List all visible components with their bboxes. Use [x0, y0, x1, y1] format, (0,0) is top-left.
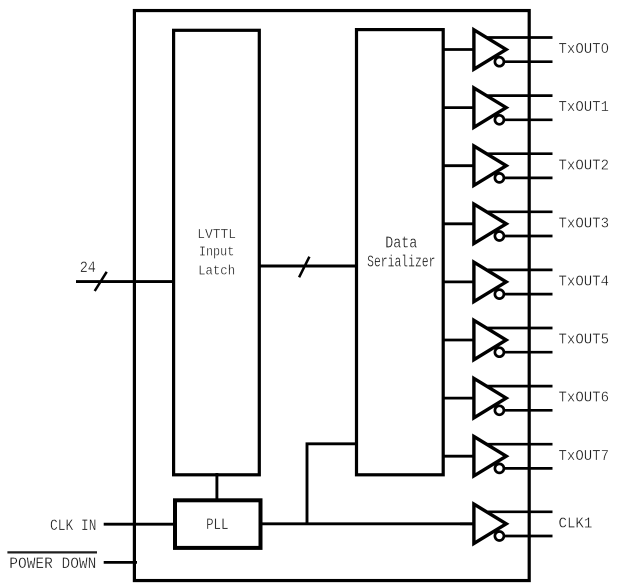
buffer TxOUT5 driver (LVDS output driver triangle)	[474, 320, 506, 359]
wire TxOUT7 driver true output	[480, 443, 553, 446]
wire TxOUT2 driver true output	[480, 152, 553, 155]
wire TxOUT4 driver complement output	[499, 293, 552, 296]
wire TxOUT2 driver buffer input	[443, 164, 476, 167]
buffer TxOUT2 driver (LVDS output driver triangle)	[474, 146, 506, 185]
wire TxOUT6 driver true output	[480, 385, 553, 388]
svg-text:PLL: PLL	[206, 516, 228, 534]
wire TxOUT6 driver buffer input	[443, 397, 476, 400]
svg-text:CLK IN: CLK IN	[50, 517, 97, 535]
wire TxOUT3 driver complement output	[499, 235, 552, 238]
wire latch to serializer (parallel data)	[258, 265, 358, 268]
svg-text:TxOUT2: TxOUT2	[559, 156, 610, 174]
svg-text:TxOUT7: TxOUT7	[559, 447, 610, 465]
block: PLL	[175, 500, 261, 548]
inversion bubble on TxOUT3 driver complement output	[495, 232, 504, 241]
wire TxOUT7 driver buffer input	[443, 455, 476, 458]
wire PLL output to CLK1 buffer	[261, 522, 477, 525]
wire POWER DOWN to chip	[104, 561, 137, 564]
wire TxOUT0 driver buffer input	[443, 48, 476, 51]
svg-text:TxOUT4: TxOUT4	[559, 273, 610, 291]
buffer TxOUT3 driver (LVDS output driver triangle)	[474, 204, 506, 243]
inversion bubble on TxOUT4 driver complement output	[495, 290, 504, 299]
wire CLK1 driver buffer input	[460, 522, 476, 525]
wire PLL clock branch up to serializer	[307, 444, 358, 524]
svg-text:CLK1: CLK1	[559, 514, 593, 532]
wire 24-bit input bus	[76, 280, 174, 283]
inversion bubble on TxOUT2 driver complement output	[495, 173, 504, 182]
svg-text:POWER DOWN: POWER DOWN	[9, 555, 96, 573]
wire CLK IN to PLL	[104, 523, 177, 526]
chip outline box	[134, 11, 529, 581]
svg-text:Data: Data	[385, 234, 417, 253]
inversion bubble on TxOUT5 driver complement output	[495, 348, 504, 357]
wire TxOUT0 driver complement output	[499, 60, 552, 63]
buffer CLK1 driver (LVDS output driver triangle)	[474, 504, 506, 543]
wire TxOUT3 driver true output	[480, 210, 553, 213]
wire TxOUT5 driver buffer input	[443, 339, 476, 342]
wire TxOUT2 driver complement output	[499, 177, 552, 180]
wire TxOUT1 driver true output	[480, 94, 553, 97]
block: Data Serializer	[357, 30, 444, 475]
wire TxOUT4 driver true output	[480, 269, 553, 272]
svg-text:TxOUT1: TxOUT1	[559, 98, 610, 116]
wire latch clock from PLL (vertical)	[215, 473, 218, 502]
bus-width slash on input bus	[95, 272, 107, 291]
wire TxOUT6 driver complement output	[499, 409, 552, 412]
wire CLK1 driver true output	[480, 510, 553, 513]
svg-text:Input: Input	[199, 245, 234, 261]
wire TxOUT3 driver buffer input	[443, 222, 476, 225]
block: LVTTL Input Latch	[174, 30, 260, 475]
svg-text:Latch: Latch	[198, 264, 235, 280]
inversion bubble on TxOUT7 driver complement output	[495, 464, 504, 473]
inversion bubble on TxOUT0 driver complement output	[495, 57, 504, 66]
svg-text:LVTTL: LVTTL	[197, 227, 236, 243]
inversion bubble on TxOUT1 driver complement output	[495, 115, 504, 124]
overline on POWER DOWN (active low)	[7, 551, 97, 553]
svg-text:TxOUT5: TxOUT5	[559, 331, 610, 349]
bus-width slash on latch-serializer bus	[299, 257, 309, 278]
wire TxOUT1 driver buffer input	[443, 106, 476, 109]
buffer TxOUT6 driver (LVDS output driver triangle)	[474, 378, 506, 417]
svg-text:Serializer: Serializer	[367, 253, 435, 272]
svg-text:TxOUT6: TxOUT6	[559, 389, 610, 407]
buffer TxOUT0 driver (LVDS output driver triangle)	[474, 30, 506, 69]
wire TxOUT5 driver true output	[480, 327, 553, 330]
svg-text:TxOUT3: TxOUT3	[559, 214, 610, 232]
inversion bubble on TxOUT6 driver complement output	[495, 406, 504, 415]
svg-text:24: 24	[80, 259, 96, 277]
buffer TxOUT4 driver (LVDS output driver triangle)	[474, 262, 506, 301]
wire TxOUT0 driver true output	[480, 36, 553, 39]
wire TxOUT4 driver buffer input	[443, 280, 476, 283]
wire TxOUT1 driver complement output	[499, 118, 552, 121]
buffer TxOUT1 driver (LVDS output driver triangle)	[474, 88, 506, 127]
wire TxOUT5 driver complement output	[499, 351, 552, 354]
buffer TxOUT7 driver (LVDS output driver triangle)	[474, 437, 506, 476]
wire CLK1 driver complement output	[499, 535, 552, 538]
inversion bubble on CLK1 driver complement output	[495, 532, 504, 541]
svg-text:TxOUT0: TxOUT0	[559, 40, 610, 58]
wire TxOUT7 driver complement output	[499, 467, 552, 470]
